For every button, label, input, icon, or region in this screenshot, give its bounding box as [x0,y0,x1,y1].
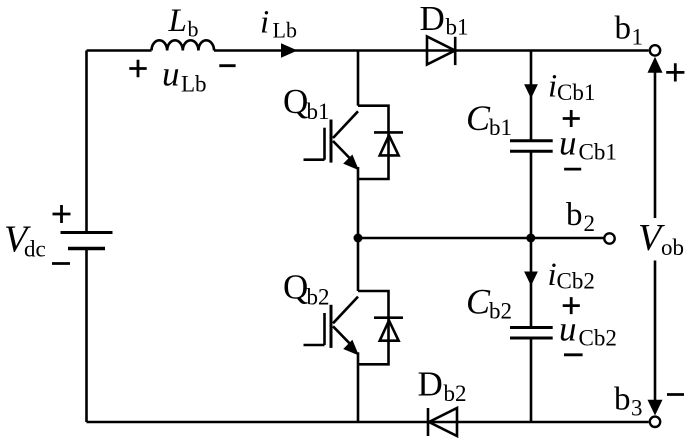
svg-text:i: i [260,5,269,41]
svg-text:D: D [420,0,445,38]
svg-text:b2: b2 [307,284,330,309]
svg-text:b1: b1 [489,115,512,140]
svg-text:Cb1: Cb1 [579,140,617,165]
svg-text:Q: Q [283,267,308,306]
svg-text:C: C [466,282,491,322]
svg-text:Cb1: Cb1 [557,80,595,105]
svg-text:i: i [548,69,557,105]
svg-text:Lb: Lb [181,72,207,97]
svg-text:b: b [615,11,632,47]
svg-text:b: b [188,17,199,42]
svg-text:3: 3 [631,396,643,421]
svg-text:1: 1 [632,25,644,50]
svg-text:L: L [168,3,187,39]
svg-text:b1: b1 [307,99,330,124]
svg-text:u: u [162,55,180,94]
svg-text:b2: b2 [489,299,512,324]
svg-text:Cb2: Cb2 [557,269,595,294]
svg-text:Q: Q [283,82,308,121]
svg-text:Lb: Lb [273,18,297,43]
svg-text:C: C [466,98,491,138]
svg-text:b2: b2 [444,381,467,406]
svg-text:2: 2 [584,211,596,236]
svg-text:i: i [548,257,557,293]
svg-text:b1: b1 [446,15,469,40]
svg-text:b: b [566,197,583,233]
svg-text:dc: dc [24,237,46,262]
svg-text:u: u [559,310,577,349]
svg-text:Cb2: Cb2 [579,326,617,351]
svg-text:b: b [614,382,631,418]
svg-text:D: D [418,365,443,404]
svg-text:u: u [559,124,577,163]
svg-text:ob: ob [661,235,684,260]
